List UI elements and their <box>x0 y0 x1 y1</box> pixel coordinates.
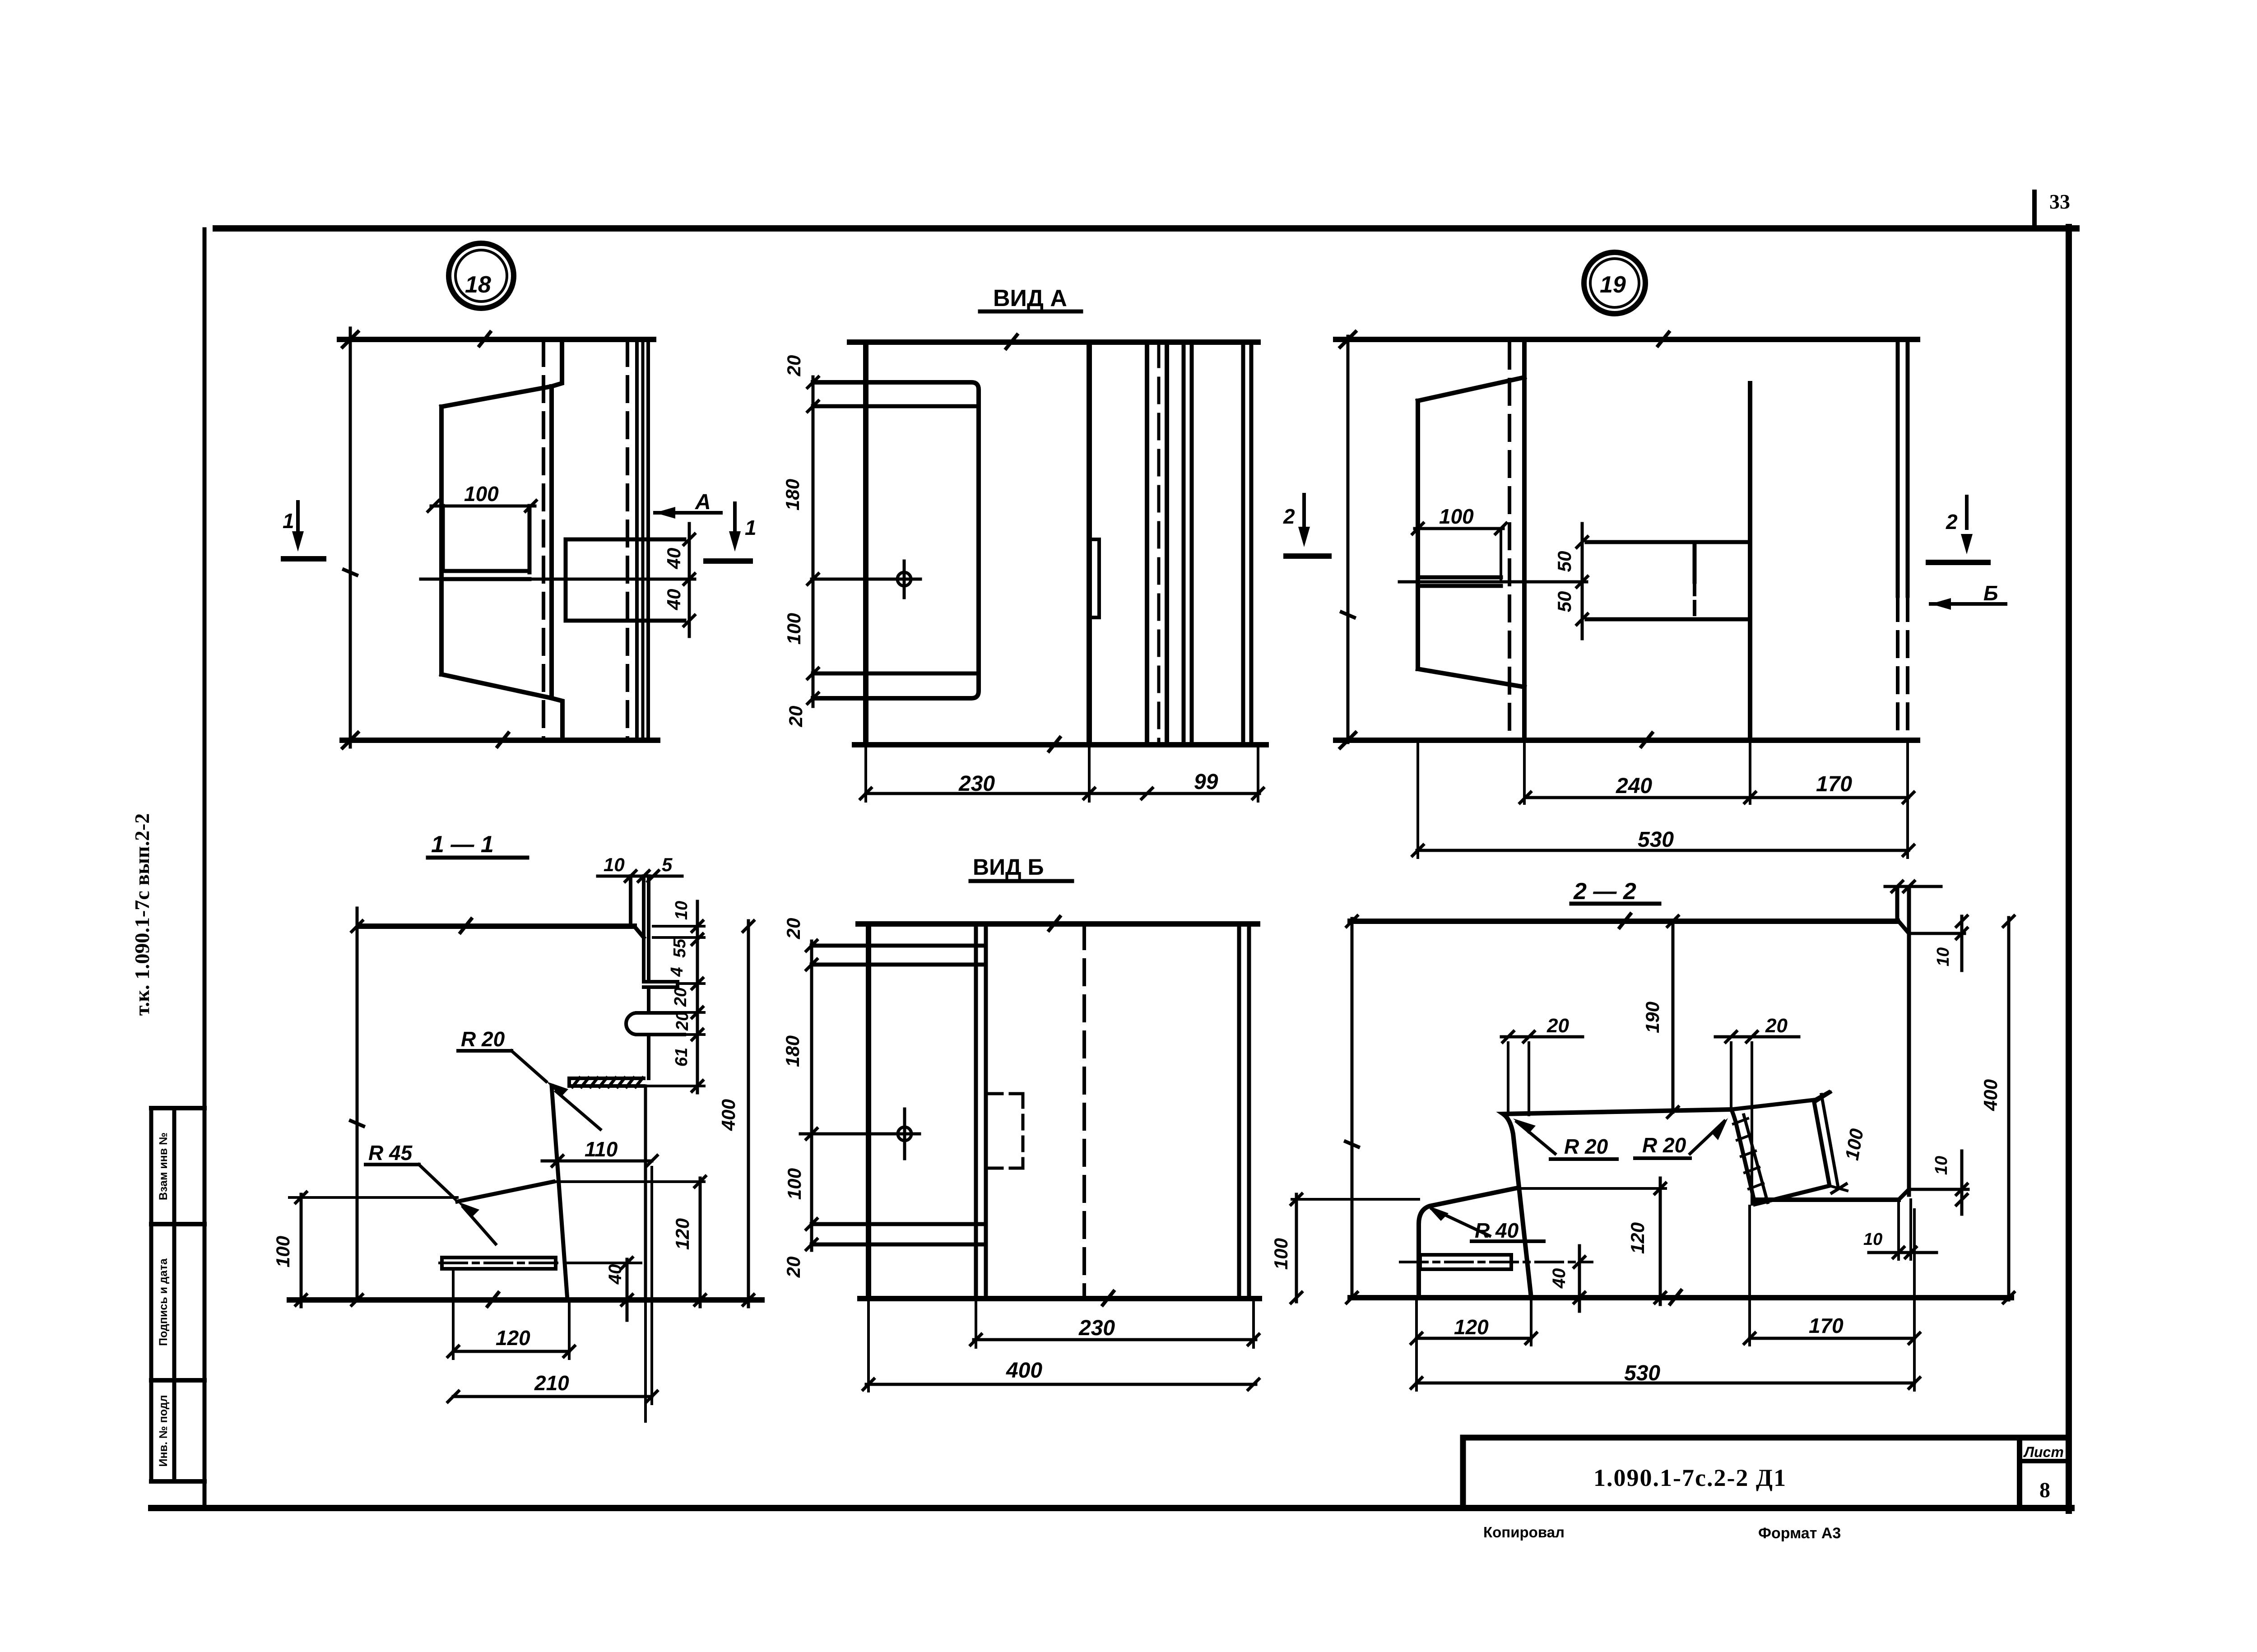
svg-text:33: 33 <box>2049 190 2070 213</box>
svg-text:10: 10 <box>1934 947 1953 966</box>
svg-text:A: A <box>695 490 711 514</box>
svg-text:100: 100 <box>1439 505 1474 528</box>
svg-text:20: 20 <box>1546 1015 1569 1037</box>
svg-text:т.к. 1.090.1-7с вып.2-2: т.к. 1.090.1-7с вып.2-2 <box>130 813 153 1016</box>
svg-text:170: 170 <box>1816 772 1852 796</box>
svg-text:Взам инв №: Взам инв № <box>157 1132 170 1200</box>
svg-text:R 45: R 45 <box>368 1141 413 1165</box>
svg-text:Подпись и дата: Подпись и дата <box>157 1258 170 1346</box>
svg-text:40: 40 <box>1549 1268 1569 1289</box>
svg-text:400: 400 <box>718 1099 739 1131</box>
svg-text:210: 210 <box>534 1371 569 1395</box>
svg-text:Лист: Лист <box>2023 1444 2064 1460</box>
svg-text:8: 8 <box>2039 1478 2050 1502</box>
svg-text:5: 5 <box>662 854 673 875</box>
svg-text:2: 2 <box>1283 505 1295 528</box>
svg-text:10: 10 <box>1932 1156 1951 1175</box>
svg-text:20: 20 <box>783 918 804 940</box>
svg-text:Б: Б <box>1983 581 1998 605</box>
svg-text:240: 240 <box>1616 774 1652 798</box>
svg-text:400: 400 <box>1006 1359 1042 1383</box>
svg-text:120: 120 <box>1454 1315 1489 1339</box>
svg-text:20: 20 <box>783 1257 804 1278</box>
svg-text:10: 10 <box>1863 1230 1882 1249</box>
svg-text:R 20: R 20 <box>461 1027 505 1051</box>
svg-text:ВИД Б: ВИД Б <box>973 854 1044 880</box>
svg-text:120: 120 <box>1627 1222 1648 1254</box>
svg-text:ВИД А: ВИД А <box>993 285 1067 311</box>
svg-text:10: 10 <box>672 901 691 920</box>
svg-text:1 — 1: 1 — 1 <box>431 831 494 858</box>
svg-text:40: 40 <box>663 548 684 570</box>
svg-text:100: 100 <box>1270 1238 1291 1270</box>
svg-text:100: 100 <box>464 482 499 506</box>
svg-text:Формат А3: Формат А3 <box>1758 1525 1841 1542</box>
svg-text:230: 230 <box>1078 1316 1115 1340</box>
svg-text:1.090.1-7с.2-2 Д1: 1.090.1-7с.2-2 Д1 <box>1593 1464 1787 1491</box>
svg-text:110: 110 <box>585 1137 618 1161</box>
svg-text:170: 170 <box>1809 1314 1844 1337</box>
svg-text:Копировал: Копировал <box>1483 1524 1565 1541</box>
svg-text:400: 400 <box>1980 1079 2001 1111</box>
svg-text:120: 120 <box>496 1326 530 1350</box>
svg-text:61: 61 <box>672 1048 691 1067</box>
svg-text:20: 20 <box>785 706 806 728</box>
svg-text:2: 2 <box>1946 510 1958 534</box>
svg-text:530: 530 <box>1638 828 1674 852</box>
svg-text:100: 100 <box>783 613 804 645</box>
svg-text:Инв. № подл: Инв. № подл <box>157 1395 170 1467</box>
svg-text:2 — 2: 2 — 2 <box>1573 878 1636 905</box>
svg-text:20: 20 <box>783 355 804 377</box>
svg-text:20: 20 <box>671 988 690 1007</box>
svg-text:4: 4 <box>668 967 687 977</box>
svg-text:230: 230 <box>958 772 995 796</box>
svg-text:40: 40 <box>605 1264 625 1285</box>
svg-text:99: 99 <box>1194 770 1218 794</box>
svg-text:10: 10 <box>604 854 625 875</box>
svg-text:190: 190 <box>1642 1002 1663 1033</box>
svg-text:180: 180 <box>782 479 803 510</box>
svg-text:100: 100 <box>272 1236 293 1267</box>
svg-text:55: 55 <box>670 938 689 958</box>
svg-text:18: 18 <box>465 272 491 298</box>
svg-text:R 40: R 40 <box>1475 1219 1519 1242</box>
svg-text:1: 1 <box>745 516 757 539</box>
svg-text:120: 120 <box>672 1218 693 1250</box>
svg-text:180: 180 <box>782 1035 803 1067</box>
svg-text:1: 1 <box>283 509 294 533</box>
svg-text:19: 19 <box>1600 272 1626 298</box>
svg-text:100: 100 <box>784 1168 805 1200</box>
svg-text:50: 50 <box>1554 591 1575 613</box>
svg-text:530: 530 <box>1624 1361 1660 1385</box>
svg-text:20: 20 <box>673 1012 692 1031</box>
svg-text:50: 50 <box>1554 551 1575 572</box>
svg-text:40: 40 <box>663 589 684 611</box>
svg-text:R 20: R 20 <box>1642 1133 1686 1157</box>
svg-text:R 20: R 20 <box>1564 1135 1608 1158</box>
svg-text:20: 20 <box>1765 1015 1788 1037</box>
